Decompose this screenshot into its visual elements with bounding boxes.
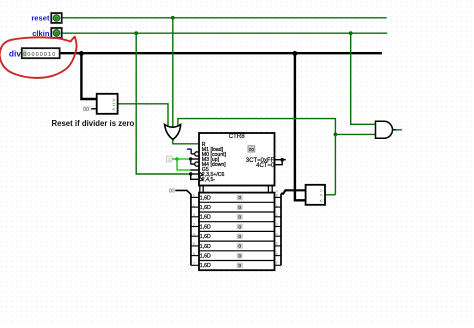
svg-text:5: 5 xyxy=(193,242,195,246)
wire reset down to OR gate xyxy=(172,18,174,128)
input pin reset xyxy=(51,13,61,23)
wire clkin down to counter clock xyxy=(136,33,191,174)
splitter right trunk xyxy=(280,194,282,266)
svg-text:0: 0 xyxy=(193,194,195,198)
svg-text:1: 1 xyxy=(193,203,195,207)
constant 00 for comparator U2 xyxy=(83,106,97,113)
svg-text:0: 0 xyxy=(55,16,58,21)
svg-text:00: 00 xyxy=(249,147,255,153)
svg-text:00000010: 00000010 xyxy=(23,52,56,58)
wire OR gate output to counter R input xyxy=(173,139,199,144)
junction div bus node B xyxy=(293,51,298,56)
wire comparator U3 output feedback to OR gate xyxy=(178,119,336,195)
svg-text:4: 4 xyxy=(276,232,278,236)
svg-text:1,6D: 1,6D xyxy=(200,254,211,260)
inverter bubble M0 xyxy=(195,152,199,156)
svg-text:4: 4 xyxy=(193,232,195,236)
svg-text:0: 0 xyxy=(238,205,241,211)
pin stub M4 xyxy=(191,159,195,164)
svg-text:2: 2 xyxy=(276,213,278,217)
svg-text:0: 0 xyxy=(238,234,241,240)
svg-text:1: 1 xyxy=(276,203,278,207)
svg-text:3: 3 xyxy=(193,223,195,227)
register block 1,6D rows xyxy=(199,193,275,271)
svg-text:1,6D: 1,6D xyxy=(200,215,211,221)
inverter bubble M4 xyxy=(195,162,199,166)
clock chevron C7 xyxy=(200,177,203,181)
constant 00 for register D inputs xyxy=(169,189,191,195)
svg-text:5: 5 xyxy=(276,242,278,246)
comparator U3 xyxy=(306,185,325,205)
svg-text:0: 0 xyxy=(238,224,241,230)
OR gate U4 xyxy=(165,125,181,140)
svg-text:CTR8: CTR8 xyxy=(229,133,246,140)
svg-text:0: 0 xyxy=(238,263,241,269)
wire AND gate output xyxy=(396,129,402,131)
junction clkin node C xyxy=(134,31,138,35)
wire div bus horizontal xyxy=(60,52,382,54)
svg-text:Reset if divider is zero: Reset if divider is zero xyxy=(52,119,135,128)
junction div bus node A xyxy=(79,51,84,56)
svg-text:7: 7 xyxy=(193,262,195,266)
comparator U2 xyxy=(97,94,118,114)
clock chevron C6 xyxy=(200,173,203,177)
counter leg left xyxy=(200,186,203,193)
wire 3CT to 4CT loop xyxy=(275,158,286,165)
svg-text:1,6D: 1,6D xyxy=(200,234,211,240)
svg-text:1,6D: 1,6D xyxy=(200,244,211,250)
splitter left trunk xyxy=(190,194,192,265)
wire register Q bus to comparator U3 xyxy=(281,190,306,193)
wire comparator U2 output to OR gate xyxy=(118,104,168,126)
svg-text:1,6D: 1,6D xyxy=(200,195,211,201)
svg-text:3: 3 xyxy=(276,223,278,227)
wire constant 1 to M3 xyxy=(172,157,199,160)
svg-text:div: div xyxy=(9,48,21,58)
constant 1 xyxy=(166,156,172,163)
wire div bus to comparator U2 xyxy=(81,53,96,99)
clock pin junction xyxy=(189,172,199,179)
splitter left branches xyxy=(191,197,199,265)
pin index labels comparator U3 xyxy=(276,190,278,201)
label clkin xyxy=(32,29,50,38)
svg-text:2,4,5-: 2,4,5- xyxy=(202,177,216,183)
counter leg right xyxy=(268,186,272,193)
svg-text:0: 0 xyxy=(238,195,241,201)
junction reset node E xyxy=(171,16,175,20)
wire constant 1 to G5 xyxy=(177,159,199,170)
svg-text:00: 00 xyxy=(83,107,89,113)
wire reset horizontal xyxy=(62,17,387,19)
junction clkin node D xyxy=(349,31,353,35)
svg-text:<: < xyxy=(320,198,323,204)
svg-text:4CT=0: 4CT=0 xyxy=(256,163,275,169)
svg-text:1,6D: 1,6D xyxy=(200,263,211,269)
svg-text:0: 0 xyxy=(55,31,58,36)
wire div bus to comparator U3 xyxy=(295,53,306,200)
wire clkin horizontal xyxy=(62,32,388,34)
register row value boxes xyxy=(237,195,243,268)
splitter left bit numbers xyxy=(193,194,195,266)
junction node F xyxy=(334,133,338,137)
register row labels 1,6D xyxy=(200,195,211,269)
input pin div value box xyxy=(22,48,60,58)
wire comparator U3 output to AND gate xyxy=(335,133,375,135)
svg-text:1,6D: 1,6D xyxy=(200,224,211,230)
note text xyxy=(52,119,135,128)
input pin clkin xyxy=(51,28,61,38)
svg-text:0: 0 xyxy=(238,215,241,221)
label div xyxy=(9,48,21,58)
svg-text:6: 6 xyxy=(276,252,278,256)
register row values xyxy=(238,195,241,269)
AND gate U5 xyxy=(376,121,397,138)
svg-text:7: 7 xyxy=(276,262,278,266)
svg-text:2: 2 xyxy=(193,213,195,217)
wire clkin down to AND gate xyxy=(351,33,376,124)
splitter right branches xyxy=(275,197,282,265)
svg-text:reset: reset xyxy=(31,14,50,23)
counter U1 CTR8 control block xyxy=(199,133,275,186)
svg-text:<: < xyxy=(112,107,115,113)
svg-text:0: 0 xyxy=(238,253,241,259)
svg-text:00: 00 xyxy=(169,189,175,195)
svg-text:1: 1 xyxy=(168,157,171,163)
label reset xyxy=(31,14,50,23)
wire comparator U3 output xyxy=(325,194,335,196)
counter U1 value display 00 xyxy=(248,146,255,153)
svg-text:0: 0 xyxy=(276,194,278,198)
annotation red ellipse xyxy=(0,37,77,78)
svg-text:0: 0 xyxy=(238,244,241,250)
splitter right bit numbers xyxy=(276,194,278,266)
svg-text:1,6D: 1,6D xyxy=(200,205,211,211)
pin stub M1 floating xyxy=(187,149,195,154)
svg-text:6: 6 xyxy=(193,252,195,256)
